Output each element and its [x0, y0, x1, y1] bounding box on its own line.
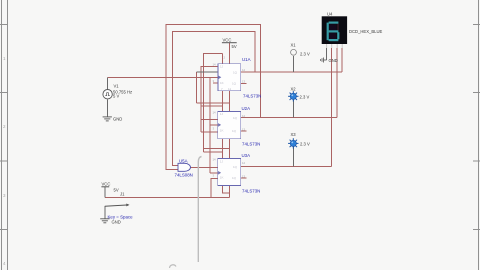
svg-text:2.3 V: 2.3 V — [300, 94, 310, 99]
svg-text:VCC: VCC — [102, 182, 111, 187]
svg-text:1Q: 1Q — [233, 165, 238, 169]
svg-text:1Q: 1Q — [232, 176, 237, 180]
svg-text:3: 3 — [3, 193, 6, 198]
svg-text:5V: 5V — [114, 188, 119, 193]
svg-text:1Q: 1Q — [233, 116, 238, 120]
svg-text:12: 12 — [242, 161, 246, 165]
svg-text:14: 14 — [213, 110, 217, 114]
svg-text:X3: X3 — [291, 132, 297, 137]
svg-text:X1: X1 — [291, 42, 297, 47]
svg-text:14: 14 — [213, 157, 217, 161]
svg-text:1: 1 — [3, 56, 6, 61]
svg-text:74LS08N: 74LS08N — [175, 173, 193, 178]
svg-text:12: 12 — [242, 68, 246, 72]
svg-text:3: 3 — [213, 79, 215, 83]
svg-text:2: 2 — [3, 124, 6, 129]
svg-text:1J: 1J — [220, 65, 224, 69]
svg-text:U1A: U1A — [242, 57, 251, 62]
svg-text:2.3 V: 2.3 V — [300, 51, 310, 56]
svg-text:4: 4 — [3, 261, 6, 266]
svg-text:14: 14 — [213, 63, 217, 67]
svg-text:5 V: 5 V — [113, 94, 119, 99]
svg-text:GND: GND — [329, 58, 338, 63]
svg-text:13: 13 — [242, 127, 246, 131]
svg-text:2: 2 — [224, 56, 226, 60]
svg-text:1Q: 1Q — [232, 129, 237, 133]
svg-text:U5A: U5A — [179, 159, 188, 164]
svg-text:74LS73N: 74LS73N — [242, 141, 260, 146]
svg-text:5V: 5V — [232, 44, 237, 49]
svg-text:GND: GND — [112, 219, 121, 224]
svg-text:VCC: VCC — [223, 38, 232, 43]
svg-text:U3A: U3A — [242, 153, 251, 158]
svg-text:3: 3 — [213, 127, 215, 131]
svg-text:X2: X2 — [291, 86, 297, 91]
svg-text:3: 3 — [213, 174, 215, 178]
svg-text:V1: V1 — [114, 84, 120, 89]
svg-text:1K: 1K — [220, 129, 224, 133]
svg-text:74LS73N: 74LS73N — [243, 94, 261, 99]
svg-text:13: 13 — [242, 80, 246, 84]
svg-text:1K: 1K — [220, 176, 224, 180]
svg-text:DCD_HEX_BLUE: DCD_HEX_BLUE — [349, 29, 382, 34]
svg-text:1Q: 1Q — [232, 82, 237, 86]
svg-text:U4: U4 — [327, 12, 333, 17]
svg-text:1J: 1J — [220, 159, 224, 163]
svg-text:1Q: 1Q — [233, 70, 238, 74]
svg-text:1J: 1J — [220, 112, 224, 116]
svg-text:GND: GND — [113, 117, 122, 122]
svg-text:2.3 V: 2.3 V — [300, 141, 310, 146]
svg-text:1K: 1K — [220, 81, 224, 85]
svg-text:11: 11 — [228, 87, 231, 91]
svg-text:74LS73N: 74LS73N — [242, 188, 260, 193]
svg-text:12: 12 — [242, 114, 246, 118]
svg-text:J1: J1 — [120, 191, 125, 196]
svg-text:U2A: U2A — [242, 106, 251, 111]
svg-text:13: 13 — [242, 174, 246, 178]
